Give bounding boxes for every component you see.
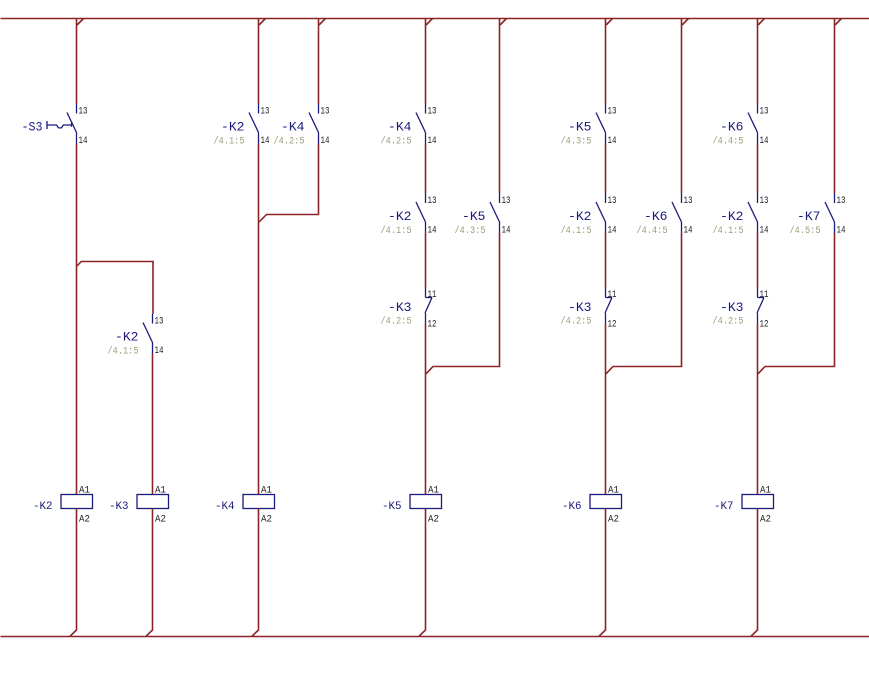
- svg-text:/4.2:5: /4.2:5: [561, 316, 592, 328]
- svg-text:-K2: -K2: [720, 209, 744, 224]
- svg-text:14: 14: [428, 136, 437, 147]
- wire: K3 NC contact down to coil K6: [605, 324, 607, 495]
- svg-text:-K4: -K4: [388, 120, 412, 135]
- svg-text:13: 13: [321, 107, 330, 118]
- svg-text:/4.2:5: /4.2:5: [274, 135, 305, 147]
- junction bevel at top bus x=499: [500, 19, 507, 26]
- relay contact K2 13/14 (seal-in branch): [108, 314, 164, 357]
- svg-text:12: 12: [608, 320, 617, 331]
- svg-text:-K2: -K2: [568, 209, 592, 224]
- wire: K2 aux contact down to coil K3: [152, 354, 154, 495]
- wire: coil K7 down to bottom bus with bevel: [751, 509, 758, 637]
- svg-text:11: 11: [760, 290, 769, 301]
- svg-text:14: 14: [155, 346, 164, 357]
- relay contact K3 NC 11/12 (col6 row3): [713, 288, 769, 331]
- wire: drop from top bus to K4 contact col3: [318, 19, 320, 105]
- svg-text:A2: A2: [79, 515, 90, 526]
- svg-text:-K2: -K2: [388, 209, 412, 224]
- coil K5: [382, 486, 442, 526]
- svg-text:-K4: -K4: [281, 120, 305, 135]
- svg-text:/4.1:5: /4.1:5: [108, 345, 139, 357]
- svg-text:-K5: -K5: [382, 501, 402, 513]
- svg-text:-K6: -K6: [644, 209, 668, 224]
- relay contact K6 13/14 (col5b row2, seal-in): [637, 194, 693, 237]
- relay contact K2 13/14 (col2 row1): [214, 104, 270, 147]
- wire: K2 contact down to coil K4: [258, 144, 260, 495]
- wire: between K2 and K3 contacts col4: [425, 233, 427, 288]
- wire: branch from node at x=76 y=261 over to x=152 down to K2 aux contact: [77, 262, 153, 315]
- svg-text:-K3: -K3: [109, 501, 129, 513]
- svg-text:A2: A2: [155, 515, 166, 526]
- svg-text:12: 12: [428, 320, 437, 331]
- svg-text:A2: A2: [428, 515, 439, 526]
- wire: coil K3 down to bottom bus with bevel: [146, 509, 153, 637]
- switch S3 manual actuator: [47, 121, 72, 129]
- wire: drop from top bus to K6 contact col6: [757, 19, 759, 105]
- relay contact K2 13/14 (col5 row2): [561, 194, 617, 237]
- svg-text:A1: A1: [155, 486, 166, 497]
- relay contact K2 13/14 (col6 row2): [713, 194, 769, 237]
- wire: coil K4 down to bottom bus with bevel: [252, 509, 259, 637]
- wire: coil K6 down to bottom bus with bevel: [599, 509, 606, 637]
- wire: K4 contact merging into column 2 at y=214: [259, 144, 318, 223]
- svg-text:-K3: -K3: [720, 300, 744, 315]
- svg-text:14: 14: [502, 226, 511, 237]
- junction bevel at top bus x=258: [259, 19, 266, 26]
- relay contact K5 13/14 (col4b row2, seal-in): [455, 194, 511, 237]
- svg-text:14: 14: [760, 226, 769, 237]
- wire: coil K5 down to bottom bus with bevel: [419, 509, 426, 637]
- svg-text:A1: A1: [760, 486, 771, 497]
- wire: between K2 and K3 contacts col6: [757, 233, 759, 288]
- coil K2: [33, 486, 93, 526]
- svg-text:A1: A1: [261, 486, 272, 497]
- svg-text:A1: A1: [608, 486, 619, 497]
- wire: coil K2 down to bottom bus with bevel: [70, 509, 77, 637]
- svg-text:14: 14: [684, 226, 693, 237]
- svg-text:13: 13: [428, 107, 437, 118]
- svg-text:-K2: -K2: [33, 501, 53, 513]
- svg-text:11: 11: [428, 290, 437, 301]
- svg-text:13: 13: [261, 107, 270, 118]
- wire: K6 contact merging into column 5 at y=366: [606, 233, 682, 374]
- svg-text:A1: A1: [79, 486, 90, 497]
- relay contact K6 13/14 (col6 row1): [713, 104, 769, 147]
- relay contact K2 13/14 (col4 row2): [381, 194, 437, 237]
- svg-text:/4.3:5: /4.3:5: [455, 225, 486, 237]
- svg-text:13: 13: [608, 107, 617, 118]
- wire: S3 contact 14 down to coil K2: [76, 144, 78, 495]
- svg-text:-K4: -K4: [215, 501, 235, 513]
- junction bevel at top bus x=757: [758, 19, 765, 26]
- junction bevel at top bus x=681: [682, 19, 689, 26]
- wire: drop from top bus to K5 contact col4b: [499, 19, 501, 194]
- wire: K5 contact merging into column 4 at y=366: [426, 233, 500, 374]
- wire: drop from top bus to K5 contact col5: [605, 19, 607, 105]
- svg-text:13: 13: [428, 196, 437, 207]
- svg-text:13: 13: [608, 196, 617, 207]
- wire: drop from top bus to K6 contact col5b: [681, 19, 683, 194]
- svg-text:/4.1:5: /4.1:5: [381, 225, 412, 237]
- svg-text:14: 14: [79, 136, 88, 147]
- svg-text:14: 14: [608, 226, 617, 237]
- junction bevel at top bus x=318: [319, 19, 326, 26]
- relay contact K5 13/14 (col5 row1): [561, 104, 617, 147]
- svg-text:/4.1:5: /4.1:5: [713, 225, 744, 237]
- switch S3 NO contact, pins 13/14: [22, 104, 88, 147]
- svg-text:/4.1:5: /4.1:5: [214, 135, 245, 147]
- svg-text:-K7: -K7: [797, 209, 821, 224]
- svg-text:/4.5:5: /4.5:5: [790, 225, 821, 237]
- svg-text:-S3: -S3: [22, 120, 43, 135]
- svg-text:14: 14: [321, 136, 330, 147]
- svg-text:A2: A2: [608, 515, 619, 526]
- svg-text:11: 11: [608, 290, 617, 301]
- wire: K3 NC contact down to coil K7: [757, 324, 759, 495]
- coil K7: [714, 486, 774, 526]
- relay contact K3 NC 11/12 (col4 row3): [381, 288, 437, 331]
- svg-text:12: 12: [760, 320, 769, 331]
- svg-text:/4.2:5: /4.2:5: [381, 316, 412, 328]
- svg-text:-K5: -K5: [568, 120, 592, 135]
- top supply bus wire: [1, 18, 869, 20]
- wire: between K4 and K2 contacts col4: [425, 144, 427, 194]
- svg-text:13: 13: [760, 107, 769, 118]
- relay contact K3 NC 11/12 (col5 row3): [561, 288, 617, 331]
- svg-text:A1: A1: [428, 486, 439, 497]
- svg-text:14: 14: [428, 226, 437, 237]
- relay contact K4 13/14 (col4 row1): [381, 104, 437, 147]
- coil K4: [215, 486, 275, 526]
- svg-text:-K5: -K5: [462, 209, 486, 224]
- wire: drop from top bus to K7 contact col6b: [834, 19, 836, 194]
- wire: between K5 and K2 contacts col5: [605, 144, 607, 194]
- svg-text:-K6: -K6: [720, 120, 744, 135]
- svg-text:13: 13: [79, 107, 88, 118]
- svg-text:14: 14: [261, 136, 270, 147]
- coil K6: [562, 486, 622, 526]
- wire: K3 NC contact down to coil K5: [425, 324, 427, 495]
- svg-text:A2: A2: [760, 515, 771, 526]
- svg-text:/4.1:5: /4.1:5: [561, 225, 592, 237]
- svg-text:/4.2:5: /4.2:5: [713, 316, 744, 328]
- svg-text:13: 13: [837, 196, 846, 207]
- svg-text:-K3: -K3: [568, 300, 592, 315]
- coil K3: [109, 486, 169, 526]
- svg-text:13: 13: [760, 196, 769, 207]
- svg-text:-K6: -K6: [562, 501, 582, 513]
- svg-text:/4.3:5: /4.3:5: [561, 135, 592, 147]
- svg-text:14: 14: [837, 226, 846, 237]
- junction bevel at top bus x=605: [606, 19, 613, 26]
- wire: drop from top bus to K2 contact col2: [258, 19, 260, 105]
- svg-text:A2: A2: [261, 515, 272, 526]
- relay contact K7 13/14 (col6b row2, seal-in): [790, 194, 846, 237]
- svg-text:-K7: -K7: [714, 501, 734, 513]
- junction bevel at top bus x=834: [835, 19, 842, 26]
- svg-text:/4.4:5: /4.4:5: [713, 135, 744, 147]
- junction bevel at top bus x=76: [77, 19, 84, 26]
- wire: drop from top bus to K4 contact col4: [425, 19, 427, 105]
- wire: K7 contact merging into column 6 at y=366: [758, 233, 835, 374]
- wire: drop from top bus to S3 contact: [76, 19, 78, 105]
- svg-text:-K2: -K2: [221, 120, 245, 135]
- wire: between K2 and K3 contacts col5: [605, 233, 607, 288]
- svg-text:13: 13: [684, 196, 693, 207]
- svg-text:/4.4:5: /4.4:5: [637, 225, 668, 237]
- svg-text:/4.2:5: /4.2:5: [381, 135, 412, 147]
- svg-text:14: 14: [608, 136, 617, 147]
- svg-text:14: 14: [760, 136, 769, 147]
- junction bevel at top bus x=425: [426, 19, 433, 26]
- svg-text:-K2: -K2: [115, 330, 139, 345]
- wire: between K6 and K2 contacts col6: [757, 144, 759, 194]
- bottom return bus wire: [1, 636, 869, 638]
- svg-text:-K3: -K3: [388, 300, 412, 315]
- svg-text:13: 13: [502, 196, 511, 207]
- svg-text:13: 13: [155, 317, 164, 328]
- relay contact K4 13/14 (col3 row1): [274, 104, 330, 147]
